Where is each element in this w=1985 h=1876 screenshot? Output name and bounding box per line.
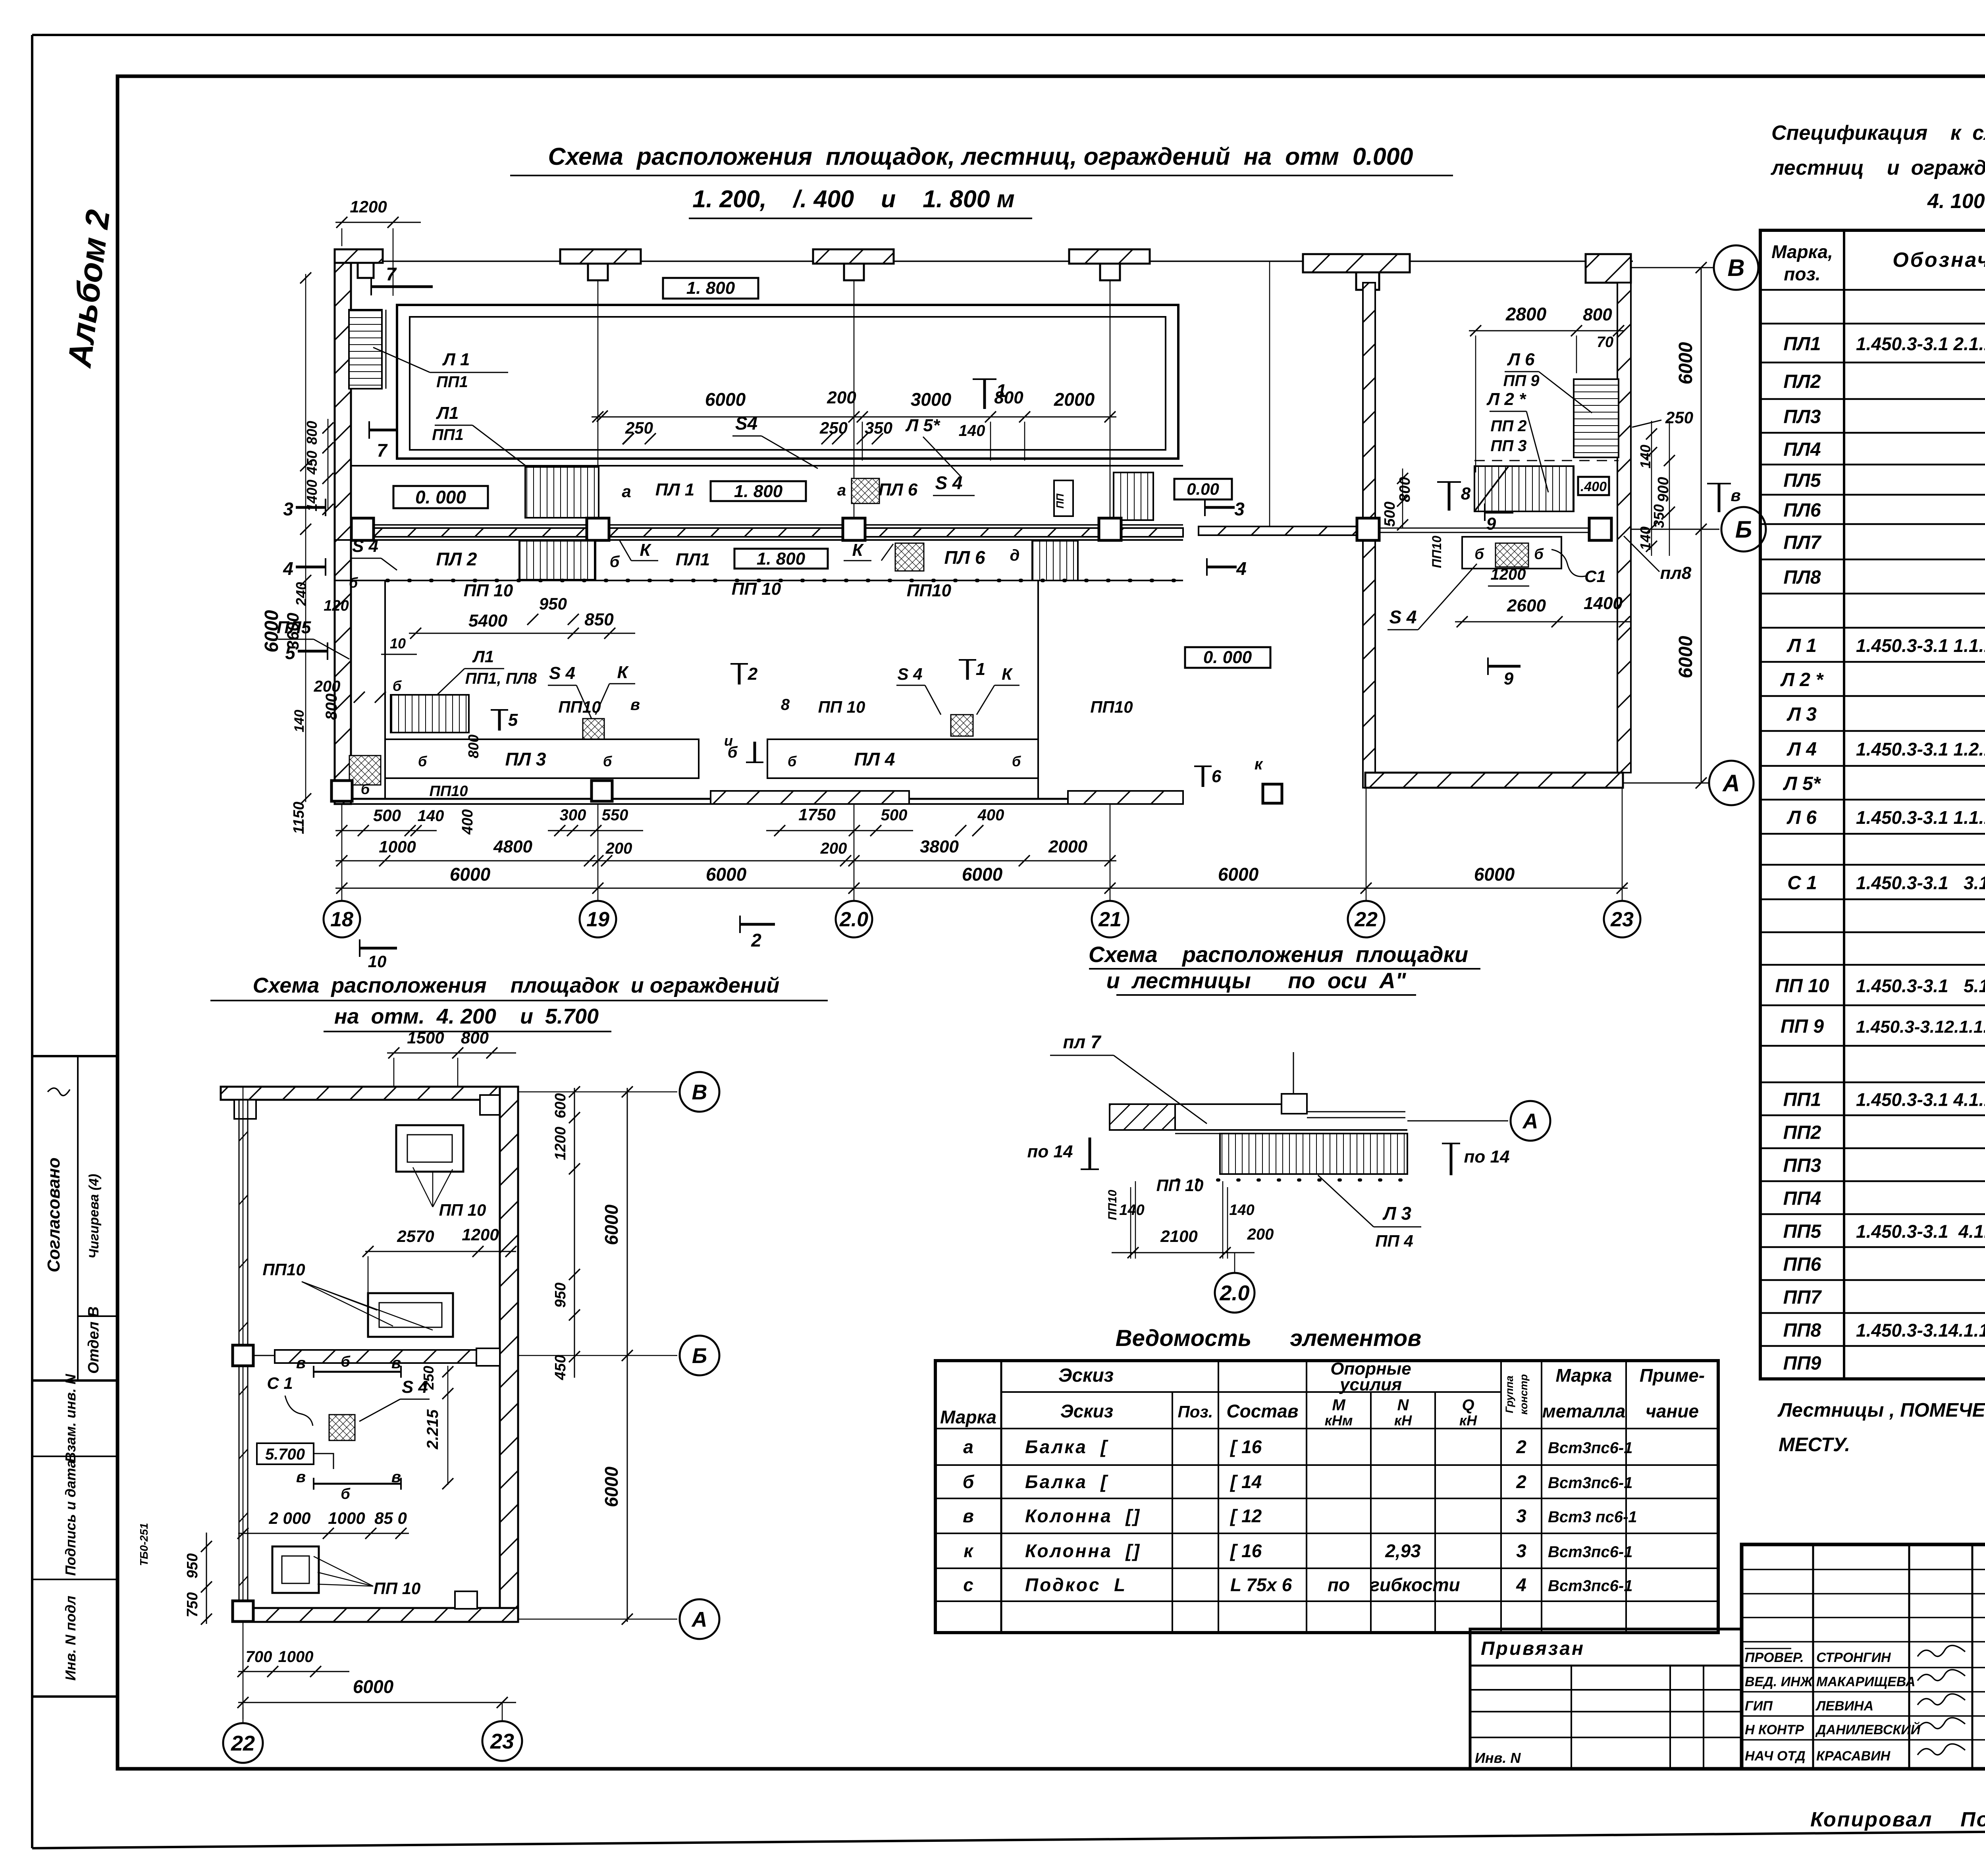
plan42: dims 2000 1000 850 xyxy=(238,1533,409,1534)
svg-text:ПП5: ПП5 xyxy=(1783,1221,1822,1242)
svg-text:М: М xyxy=(1332,1396,1346,1414)
svg-text:Б: Б xyxy=(692,1344,707,1368)
svg-text:1.450.3-3.1 4.1.2.1.0-10: 1.450.3-3.1 4.1.2.1.0-10 xyxy=(1856,1221,1985,1242)
axisA: fence dots under stair xyxy=(1177,1178,1407,1182)
svg-text:200: 200 xyxy=(827,388,856,407)
plan: level mark 0.000 walkway xyxy=(393,486,488,508)
svg-text:ПП 10: ПП 10 xyxy=(439,1201,486,1219)
svg-text:10: 10 xyxy=(368,952,387,971)
svg-text:2000: 2000 xyxy=(1048,837,1087,856)
svg-text:1.450.3-3.1 3.1.0.1.0: 1.450.3-3.1 3.1.0.1.0 xyxy=(1856,873,1985,893)
svg-text:ПП1: ПП1 xyxy=(1783,1089,1821,1111)
plan: witness lines to dim rows xyxy=(341,804,343,888)
svg-text:Подкос L: Подкос L xyxy=(1025,1575,1127,1595)
svg-text:усилия: усилия xyxy=(1339,1375,1402,1394)
svg-text:пл8: пл8 xyxy=(1660,563,1692,583)
svg-text:Л 4: Л 4 xyxy=(1786,739,1817,760)
plan: top tee at column 20 xyxy=(813,249,894,264)
svg-text:ГИП: ГИП xyxy=(1745,1699,1773,1714)
page outer trim border xyxy=(32,34,1985,36)
svg-text:Взам. инв. N: Взам. инв. N xyxy=(62,1374,79,1463)
svg-text:6: 6 xyxy=(1212,767,1222,786)
svg-text:и лестницы по оси А": и лестницы по оси А" xyxy=(1106,968,1407,993)
plan: section 5 mark in room xyxy=(498,710,501,731)
svg-text:Вст3 пс6-1: Вст3 пс6-1 xyxy=(1548,1508,1637,1526)
svg-text:6000: 6000 xyxy=(1675,342,1696,384)
svg-text:22: 22 xyxy=(231,1731,255,1755)
svg-text:ПЛ5: ПЛ5 xyxy=(1783,470,1821,491)
svg-text:ПП1: ПП1 xyxy=(436,373,468,391)
svg-text:Л 6: Л 6 xyxy=(1786,807,1817,828)
plan: level mark 0.000 right end of band1 xyxy=(1174,479,1232,499)
svg-text:ПЛ2: ПЛ2 xyxy=(1783,371,1821,392)
svg-text:Группа: Группа xyxy=(1503,1376,1515,1413)
svg-text:Приме-: Приме- xyxy=(1640,1365,1705,1386)
svg-text:450: 450 xyxy=(552,1355,569,1380)
plan: column base squares bottom xyxy=(331,781,352,801)
plan right: section 9 mark lower xyxy=(1488,665,1521,668)
svg-text:в: в xyxy=(391,1468,401,1486)
svg-text:Лестницы , ПОМЕЧЕННЫЕ ЗНАКОМ: Лестницы , ПОМЕЧЕННЫЕ ЗНАКОМ ✱, УКОРОТИТ… xyxy=(1777,1400,1985,1421)
svg-text:800: 800 xyxy=(323,694,340,720)
svg-text:Марка: Марка xyxy=(1555,1365,1612,1386)
svg-text:Согласовано: Согласовано xyxy=(44,1157,64,1272)
plan: section mark 7 lower xyxy=(369,429,398,432)
plan: column axis lines xyxy=(597,261,599,527)
svg-text:металла: металла xyxy=(1542,1401,1625,1421)
plan42: platform 1 xyxy=(396,1125,463,1172)
svg-text:[ 14: [ 14 xyxy=(1230,1471,1262,1492)
svg-text:ПП 3: ПП 3 xyxy=(1491,437,1527,455)
svg-text:ПП 10: ПП 10 xyxy=(818,698,865,716)
svg-text:750: 750 xyxy=(184,1592,201,1617)
svg-text:2.215: 2.215 xyxy=(424,1409,441,1450)
svg-text:гибкости: гибкости xyxy=(1370,1575,1460,1595)
svg-text:ПП2: ПП2 xyxy=(1783,1122,1821,1143)
plan: left wall column 18 xyxy=(335,263,351,804)
plan: PL3 band xyxy=(385,739,699,778)
svg-text:700: 700 xyxy=(246,1648,272,1666)
svg-text:ПЛ5: ПЛ5 xyxy=(277,618,311,637)
plan42: left wall thin xyxy=(239,1100,240,1608)
svg-text:800: 800 xyxy=(465,735,482,758)
plan: PL4 band xyxy=(767,739,1038,778)
svg-text:Колонна []: Колонна [] xyxy=(1025,1541,1141,1561)
svg-text:ПП 4: ПП 4 xyxy=(1375,1232,1413,1250)
plan right: vertical 6000 dims xyxy=(1701,268,1702,783)
svg-text:Подпись и дата: Подпись и дата xyxy=(62,1460,79,1576)
svg-text:ПП 9: ПП 9 xyxy=(1503,372,1540,389)
plan42: room 5.700 bottom bar xyxy=(314,1483,401,1485)
svg-text:4: 4 xyxy=(1236,558,1247,579)
svg-text:Б: Б xyxy=(1735,516,1752,543)
svg-text:Схема расположения площадок,: Схема расположения площадок, лестниц, ог… xyxy=(548,143,1413,170)
svg-text:А: А xyxy=(1722,770,1740,796)
svg-text:1000: 1000 xyxy=(328,1509,365,1527)
svg-text:1200: 1200 xyxy=(552,1127,569,1161)
svg-text:Ведомость элементов: Ведомость элементов xyxy=(1116,1325,1421,1351)
svg-text:550: 550 xyxy=(602,806,628,824)
svg-text:800: 800 xyxy=(1583,305,1612,324)
svg-text:Q: Q xyxy=(1462,1396,1474,1414)
svg-text:А: А xyxy=(1522,1109,1538,1133)
plan: net block under S4 xyxy=(583,719,604,739)
svg-text:Схема расположения площадк: Схема расположения площадки xyxy=(1089,942,1468,967)
svg-text:Л 5*: Л 5* xyxy=(1783,773,1821,794)
plan: S4 net mark band1 xyxy=(852,478,879,503)
svg-text:Копировал Подлевская: Копировал Подлевская xyxy=(1810,1808,1985,1831)
svg-text:К: К xyxy=(852,540,864,560)
svg-text:б: б xyxy=(603,753,613,769)
left margin stamp: inventory box xyxy=(32,1380,117,1697)
svg-text:200: 200 xyxy=(314,678,341,695)
svg-text:в: в xyxy=(296,1354,306,1372)
title block left columns xyxy=(1812,1544,1814,1769)
svg-text:К: К xyxy=(1002,665,1013,683)
svg-text:6000: 6000 xyxy=(705,389,746,410)
svg-text:Вст3пс6-1: Вст3пс6-1 xyxy=(1548,1439,1632,1457)
svg-text:1.450.3-3.1 2.1.1.0.0-37: 1.450.3-3.1 2.1.1.0.0-37 xyxy=(1856,334,1985,354)
svg-text:в: в xyxy=(1731,486,1740,505)
svg-text:Инв. N подл: Инв. N подл xyxy=(62,1596,79,1681)
svg-text:850: 850 xyxy=(584,610,614,629)
svg-text:Л 1: Л 1 xyxy=(442,350,470,369)
plan: dim row 2 chain xyxy=(335,860,1116,862)
plan42: net block S4 xyxy=(329,1415,355,1440)
plan42: right outer 6000 dims xyxy=(627,1088,628,1622)
svg-text:Л 5*: Л 5* xyxy=(905,416,940,435)
svg-text:2: 2 xyxy=(751,930,761,951)
plan: net block right xyxy=(951,715,973,736)
plan right: lower stair flight xyxy=(1474,466,1574,511)
svg-text:18: 18 xyxy=(330,908,353,931)
svg-text:д: д xyxy=(1010,547,1020,564)
svg-text:ПЛ4: ПЛ4 xyxy=(1783,439,1821,460)
plan: walkway band 2 xyxy=(335,539,1183,541)
svg-text:Колонна []: Колонна [] xyxy=(1025,1506,1141,1526)
svg-text:5: 5 xyxy=(508,710,518,730)
svg-text:250: 250 xyxy=(819,418,848,437)
svg-text:ПП10: ПП10 xyxy=(430,783,468,800)
svg-text:Отдел В: Отдел В xyxy=(85,1306,102,1374)
svg-text:ПЛ8: ПЛ8 xyxy=(1783,567,1821,588)
svg-text:пл 7: пл 7 xyxy=(1063,1032,1101,1052)
svg-text:в: в xyxy=(630,696,640,713)
svg-text:7: 7 xyxy=(386,264,397,284)
plan42: room 5.700 top bar xyxy=(314,1371,401,1373)
svg-text:по 14: по 14 xyxy=(1027,1142,1073,1161)
svg-text:ПЛ 4: ПЛ 4 xyxy=(854,749,895,769)
plan42: left column axis xyxy=(243,1087,244,1719)
svg-text:б: б xyxy=(788,753,797,769)
svg-text:С 1: С 1 xyxy=(1787,873,1817,894)
svg-text:ПП8: ПП8 xyxy=(1783,1320,1821,1341)
svg-text:б: б xyxy=(1534,546,1544,563)
svg-text:1400: 1400 xyxy=(1584,594,1623,613)
svg-text:ПЛ 6: ПЛ 6 xyxy=(879,480,918,499)
svg-text:6000: 6000 xyxy=(353,1676,394,1697)
svg-text:констр: констр xyxy=(1518,1374,1530,1415)
axisA: witness lines down xyxy=(1135,1181,1136,1259)
plan: net block near wall bottom-left xyxy=(349,756,381,785)
plan42: right wall xyxy=(500,1087,518,1622)
svg-text:70: 70 xyxy=(1597,334,1613,351)
svg-text:1000: 1000 xyxy=(278,1648,314,1666)
svg-text:ДАНИЛЕВСКИЙ: ДАНИЛЕВСКИЙ xyxy=(1815,1722,1921,1737)
plan: band2 stair xyxy=(519,541,595,580)
svg-text:6000: 6000 xyxy=(706,864,747,885)
plan: fence dots on room top xyxy=(387,579,1181,582)
plan: section 2 mark xyxy=(738,664,741,684)
plan: row B column squares xyxy=(351,518,374,540)
svg-text:Л 1: Л 1 xyxy=(1786,635,1817,656)
svg-text:Инв. N: Инв. N xyxy=(1475,1750,1521,1766)
svg-text:ПП3: ПП3 xyxy=(1783,1155,1821,1176)
plan: row B wall band left section xyxy=(351,524,1183,526)
svg-text:НАЧ ОТД: НАЧ ОТД xyxy=(1745,1749,1806,1764)
plan42: right inner dim chain xyxy=(574,1088,575,1378)
svg-text:200: 200 xyxy=(605,840,632,857)
left margin stamp: approvals box xyxy=(32,1056,117,1380)
svg-text:250: 250 xyxy=(420,1366,437,1390)
svg-text:1150: 1150 xyxy=(291,802,307,834)
plan: big tank rectangle xyxy=(397,305,1178,459)
svg-text:ПЛ 3: ПЛ 3 xyxy=(505,749,546,769)
svg-text:1.450.3-3.12.1.1.1.0.0-33: 1.450.3-3.12.1.1.1.0.0-33 xyxy=(1856,1017,1985,1037)
svg-text:5400: 5400 xyxy=(468,611,507,630)
svg-text:ПП10: ПП10 xyxy=(262,1260,305,1279)
svg-text:6000: 6000 xyxy=(450,864,491,885)
svg-text:ПП 10: ПП 10 xyxy=(1156,1176,1204,1195)
svg-text:1. 800: 1. 800 xyxy=(757,549,806,569)
svg-text:2800: 2800 xyxy=(1505,304,1547,324)
svg-text:Марка,: Марка, xyxy=(1771,241,1833,262)
svg-text:ПЛ 2: ПЛ 2 xyxy=(436,549,477,569)
svg-text:к: к xyxy=(964,1541,974,1561)
plan42: left dims 950 750 xyxy=(206,1533,207,1624)
plan right: row B column squares xyxy=(1357,518,1379,540)
plan42: bottom dims 700 1000 xyxy=(238,1671,349,1672)
svg-text:140: 140 xyxy=(959,422,985,440)
plan: section marks 3,4 right of left section xyxy=(1205,506,1235,509)
svg-text:19: 19 xyxy=(586,908,609,931)
svg-text:ПП7: ПП7 xyxy=(1783,1287,1822,1308)
svg-text:23: 23 xyxy=(1610,908,1634,931)
plan: small stair band1 right xyxy=(1114,472,1153,520)
svg-text:ПЛ6: ПЛ6 xyxy=(1783,500,1821,521)
svg-text:К: К xyxy=(640,540,651,560)
svg-text:1.450.3-3.1 5.1.0.10-08: 1.450.3-3.1 5.1.0.10-08 xyxy=(1856,976,1985,996)
svg-text:200: 200 xyxy=(820,840,847,857)
plan: dim row 3 6000 chain xyxy=(335,888,1628,889)
svg-text:S4: S4 xyxy=(735,413,757,434)
plan: walkway band 1 top line xyxy=(351,465,1183,467)
svg-text:Н КОНТР: Н КОНТР xyxy=(1745,1722,1804,1737)
svg-text:ТБ0-251: ТБ0-251 xyxy=(138,1523,150,1566)
svg-text:Вст3пс6-1: Вст3пс6-1 xyxy=(1548,1474,1632,1492)
svg-text:10: 10 xyxy=(390,635,406,652)
svg-text:2 000: 2 000 xyxy=(268,1509,310,1527)
svg-text:2000: 2000 xyxy=(1054,389,1095,410)
svg-text:[ 12: [ 12 xyxy=(1230,1506,1262,1526)
svg-text:2.0: 2.0 xyxy=(839,908,868,931)
svg-text:950: 950 xyxy=(184,1553,201,1578)
svg-text:85 0: 85 0 xyxy=(374,1509,407,1527)
svg-text:к: к xyxy=(1255,756,1263,773)
plan right: level box 0.000 xyxy=(1185,647,1270,668)
plan42: dims 2570 1200 xyxy=(365,1251,516,1252)
plan right: right wall xyxy=(1617,283,1631,773)
plan right: landing level box 1.400 xyxy=(1578,477,1609,495)
svg-text:С1: С1 xyxy=(1584,567,1606,586)
element list table grid xyxy=(935,1361,1718,1633)
svg-text:Обозначение: Обозначение xyxy=(1892,249,1985,272)
svg-text:240: 240 xyxy=(293,582,309,606)
svg-text:1750: 1750 xyxy=(798,805,835,824)
svg-text:4800: 4800 xyxy=(493,837,532,856)
svg-text:чание: чание xyxy=(1646,1401,1699,1421)
svg-text:6000: 6000 xyxy=(601,1204,622,1245)
svg-text:8: 8 xyxy=(1461,484,1471,503)
svg-text:ЛЕВИНА: ЛЕВИНА xyxy=(1815,1699,1873,1714)
svg-text:кН: кН xyxy=(1394,1412,1412,1429)
svg-text:лестниц и ограждений на: лестниц и ограждений на отм. 0.000; 1.20… xyxy=(1770,156,1985,179)
svg-text:Л1: Л1 xyxy=(472,647,494,666)
plan42: platform 3 xyxy=(272,1546,319,1593)
svg-text:S 4: S 4 xyxy=(352,536,378,556)
svg-text:9: 9 xyxy=(1486,514,1496,534)
svg-text:140: 140 xyxy=(1119,1202,1144,1219)
svg-text:500: 500 xyxy=(881,806,908,824)
svg-text:Спецификация к схемам рас: Спецификация к схемам расположения площа… xyxy=(1771,121,1985,145)
plan right: upper stair flight xyxy=(1574,379,1619,457)
plan right: row circles V B A xyxy=(1631,267,1714,268)
svg-text:N: N xyxy=(1397,1396,1409,1414)
plan: band2 stair right xyxy=(1032,541,1078,580)
svg-text:0. 000: 0. 000 xyxy=(415,487,466,507)
axisA: circle A xyxy=(1407,1120,1508,1122)
svg-text:6000: 6000 xyxy=(601,1466,622,1507)
svg-text:Л 6: Л 6 xyxy=(1507,350,1535,369)
svg-text:3: 3 xyxy=(1516,1541,1526,1561)
svg-text:950: 950 xyxy=(539,594,567,613)
svg-text:ПЛ7: ПЛ7 xyxy=(1783,532,1822,553)
svg-text:6000: 6000 xyxy=(1218,864,1259,885)
svg-text:1000: 1000 xyxy=(379,837,416,856)
svg-text:на отм. 4. 200 и 5.700: на отм. 4. 200 и 5.700 xyxy=(334,1005,599,1028)
plan: section 6 and K bottom right xyxy=(1202,766,1204,787)
svg-text:1200: 1200 xyxy=(1491,566,1526,583)
svg-text:22: 22 xyxy=(1354,908,1378,931)
svg-text:б: б xyxy=(610,553,620,571)
svg-text:ПП10: ПП10 xyxy=(558,698,601,716)
svg-text:6000: 6000 xyxy=(1675,636,1696,678)
plan42: bottom 6000 dim xyxy=(238,1702,516,1703)
svg-text:2: 2 xyxy=(748,664,758,684)
svg-text:200: 200 xyxy=(1247,1226,1274,1243)
svg-text:Балка [: Балка [ xyxy=(1025,1436,1108,1457)
svg-text:1.450.3-3.1 1.2.1.0.0- 05: 1.450.3-3.1 1.2.1.0.0- 05 xyxy=(1856,739,1985,760)
svg-text:3: 3 xyxy=(1234,499,1245,519)
plan right: section v mark xyxy=(1718,484,1721,512)
svg-text:[ 16: [ 16 xyxy=(1230,1436,1262,1457)
svg-text:1200: 1200 xyxy=(350,197,387,216)
svg-text:2600: 2600 xyxy=(1507,596,1546,615)
plan: top tee at column 19 xyxy=(560,249,641,264)
svg-text:950: 950 xyxy=(552,1282,569,1307)
title block frame xyxy=(1742,1544,1985,1769)
svg-text:ПП9: ПП9 xyxy=(1783,1353,1821,1374)
svg-text:В: В xyxy=(692,1080,707,1104)
svg-text:Л 2 *: Л 2 * xyxy=(1486,389,1526,409)
axisA: platform slab xyxy=(1110,1103,1293,1105)
svg-text:кНм: кНм xyxy=(1325,1412,1353,1429)
svg-text:Л 2 *: Л 2 * xyxy=(1780,669,1824,690)
svg-text:ПП6: ПП6 xyxy=(1783,1254,1821,1275)
plan42: row A wall xyxy=(243,1608,518,1622)
plan right: left wall column 22 xyxy=(1363,283,1375,519)
svg-text:ВЕД. ИНЖ: ВЕД. ИНЖ xyxy=(1745,1674,1814,1689)
svg-text:1. 800: 1. 800 xyxy=(734,482,783,501)
svg-text:б: б xyxy=(349,575,358,591)
svg-text:1.450.3-3.1 1.1.1.0.0- 07: 1.450.3-3.1 1.1.1.0.0- 07 xyxy=(1856,635,1985,656)
plan: section marks 3,4 left side xyxy=(296,506,326,509)
plan: dim row 1 small dims xyxy=(335,830,437,831)
svg-text:S 4: S 4 xyxy=(1389,607,1416,627)
plan: band2 net block xyxy=(895,543,924,571)
svg-text:250: 250 xyxy=(625,418,653,437)
svg-text:350: 350 xyxy=(865,418,892,437)
svg-text:S 4: S 4 xyxy=(935,472,962,493)
svg-text:Схема расположения площадо: Схема расположения площадок и ограждений xyxy=(253,974,780,997)
plan42: row circles V B A xyxy=(518,1091,677,1093)
svg-text:б: б xyxy=(1474,546,1484,563)
plan: ladder L1 with rail PP1 (left) xyxy=(349,310,382,389)
svg-text:ПП1: ПП1 xyxy=(432,426,464,443)
svg-text:К: К xyxy=(617,663,629,682)
plan42: level box 5.700 xyxy=(257,1443,314,1464)
svg-text:поз.: поз. xyxy=(1784,264,1820,284)
svg-text:0. 000: 0. 000 xyxy=(1203,648,1252,667)
plan: section 10 mark below xyxy=(360,947,397,950)
plan: top tee at column 21 xyxy=(1069,249,1150,264)
svg-text:ПП 10: ПП 10 xyxy=(464,581,513,600)
svg-text:а: а xyxy=(622,482,631,501)
svg-text:1. 200, /. 400 и 1. 8: 1. 200, /. 400 и 1. 800 м xyxy=(692,185,1014,212)
plan right: dim 2800 800 70 xyxy=(1469,330,1624,332)
plan: section 2 mark below xyxy=(740,923,775,926)
svg-text:б: б xyxy=(361,781,370,797)
svg-text:1.450.3-3.1 4.1.1.1.0- 07: 1.450.3-3.1 4.1.1.1.0- 07 xyxy=(1856,1089,1985,1110)
plan: inner dimension chain 6000-200-3000-800-2000 xyxy=(592,416,1116,418)
svg-text:б: б xyxy=(963,1471,975,1492)
svg-text:В: В xyxy=(1727,255,1744,281)
plan: dim 250 at column 19 xyxy=(597,411,608,422)
axisA: stair flight xyxy=(1220,1134,1407,1174)
svg-text:3800: 3800 xyxy=(920,837,959,856)
axisA: labels L3 PP4 xyxy=(1318,1175,1374,1227)
svg-text:9: 9 xyxy=(1504,669,1514,688)
plan: stair in room lower-left xyxy=(391,695,469,733)
svg-text:по: по xyxy=(1328,1575,1350,1595)
svg-text:а: а xyxy=(837,482,846,499)
svg-text:Вст3пс6-1: Вст3пс6-1 xyxy=(1548,1543,1632,1561)
svg-text:Чигирева (4): Чигирева (4) xyxy=(87,1174,102,1259)
svg-text:1. 800: 1. 800 xyxy=(686,278,735,298)
plan right: section 9 mark upper xyxy=(1485,511,1513,514)
svg-text:ПП10: ПП10 xyxy=(1090,698,1133,716)
svg-text:3000: 3000 xyxy=(911,389,952,410)
